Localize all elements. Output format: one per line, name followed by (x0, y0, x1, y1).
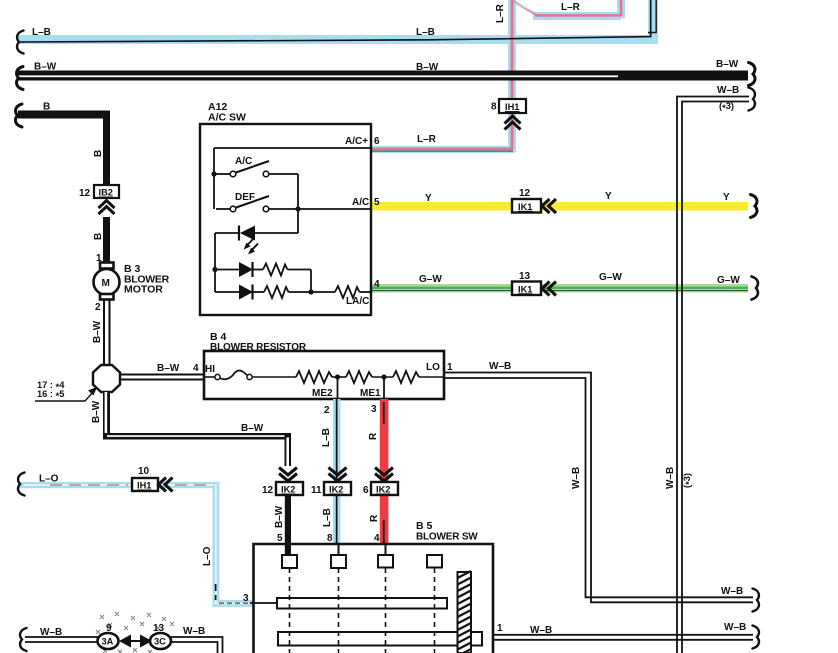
splice arrows between 3A 3C (119, 635, 152, 648)
B5 terminal square spare (427, 555, 442, 568)
svg-text:B–W: B–W (241, 423, 264, 434)
pin 2 blower motor (95, 302, 101, 313)
wire L-R corner to A12 pin6 (372, 131, 516, 153)
label W-B bottom right horizontal (721, 586, 743, 597)
label Y mid (605, 191, 612, 202)
svg-text:12: 12 (79, 188, 91, 199)
label B-W center (416, 62, 439, 73)
label B-W horizontal run (241, 423, 264, 434)
wire B-W octagon down and right to IK2 (thick with core) (103, 392, 291, 466)
label A/C pin name (352, 197, 369, 208)
label W-B near pin1 (530, 625, 552, 636)
blower resistor B4 box (204, 351, 444, 399)
connector 12 IK1 box (512, 199, 541, 213)
pin 5 of A12 (374, 197, 380, 208)
svg-text:16 : *5: 16 : *5 (37, 389, 64, 401)
label A12 A/C SW (208, 101, 246, 124)
label L-R mid (417, 134, 437, 145)
cut symbol B-W left (17, 67, 23, 90)
label R rotated upper (368, 432, 379, 440)
svg-text:B 5: B 5 (416, 520, 433, 532)
label B-W right (716, 59, 739, 70)
label W-B after 3C (183, 626, 205, 637)
switch DEF (216, 196, 269, 212)
svg-text:3C: 3C (154, 637, 166, 647)
svg-text:5: 5 (277, 533, 283, 544)
svg-text:L–B: L–B (416, 27, 435, 38)
svg-text:2: 2 (95, 302, 101, 313)
label W-B far right bottom (724, 622, 746, 633)
pin 1 of B5 (497, 623, 503, 634)
pin 5 of B5 (277, 533, 283, 544)
pin 3 label below B4 (371, 404, 377, 415)
wire B thick to motor (103, 217, 110, 262)
connector 10 IH1 box (132, 478, 158, 491)
wire W-B bottom left (25, 637, 98, 642)
svg-text:G–W: G–W (717, 275, 740, 286)
svg-text:HI: HI (205, 364, 215, 375)
label B rotated lower (93, 233, 104, 240)
wire R red vertical B4 to B5 (380, 399, 389, 544)
svg-text:R: R (368, 432, 379, 440)
label G-W left (419, 274, 442, 285)
svg-text:Y: Y (723, 192, 730, 203)
svg-text:12: 12 (262, 485, 274, 496)
svg-text:3: 3 (243, 593, 249, 604)
svg-text:3A: 3A (102, 637, 114, 647)
resistor R-led3 zigzag (264, 286, 335, 298)
wire L-R vertical from top (blue sheath + pink core) (508, 0, 516, 152)
svg-text:4: 4 (374, 533, 380, 544)
svg-text:A/C: A/C (352, 197, 369, 208)
node A/C+ internal row (214, 148, 371, 209)
svg-text:R: R (369, 514, 380, 522)
resistor ME1-LO (393, 371, 444, 383)
cut symbol W-B right mid (753, 589, 759, 612)
svg-text:2: 2 (324, 405, 330, 416)
svg-text:B–W: B–W (34, 62, 57, 73)
junction dot ME2 (335, 374, 340, 399)
svg-text:DEF: DEF (235, 192, 255, 203)
pin 6 of IK2 (363, 485, 369, 496)
svg-text:IK2: IK2 (376, 485, 390, 495)
cut symbol B-W right (749, 63, 755, 86)
B5 terminal square 4 (378, 545, 393, 568)
junction dot ME1 (381, 374, 386, 399)
svg-text:8: 8 (327, 533, 333, 544)
switch A/C (216, 161, 269, 177)
svg-text:L–B: L–B (321, 428, 332, 447)
wire L-O orange stripe dashes (50, 485, 250, 603)
junction dot LA/C row (308, 289, 313, 294)
svg-text:B–W: B–W (92, 320, 103, 343)
label Y right (723, 192, 730, 203)
label B-W octagon-B4 (157, 363, 180, 374)
wire L-B vertical B4 to B5 (333, 399, 341, 544)
connector 6 IK2 box (371, 482, 398, 495)
svg-text:IH1: IH1 (505, 102, 519, 112)
junction dot DEF/pin5 (295, 206, 300, 211)
svg-text:L–O: L–O (39, 474, 59, 485)
pin 6 of A12 (374, 136, 380, 147)
label L-B center (416, 27, 435, 38)
label ME2 ME1 (312, 388, 381, 399)
label B left (43, 102, 50, 113)
label R rotated lower (369, 514, 380, 522)
pin 12 of IK1 (519, 188, 531, 199)
annotation 17:*4 16:*5 with arrow (35, 380, 97, 401)
wire G-W green A12 pin4 to right (372, 284, 748, 293)
pin 10 of IH1 (138, 466, 150, 477)
svg-text:IH1: IH1 (137, 481, 151, 491)
wire W-B from B5 pin1 to right cut (493, 635, 753, 640)
pin 4 of B5 (374, 533, 380, 544)
wire Y yellow A12 pin5 to right (372, 202, 748, 211)
label L-R top horizontal (561, 2, 581, 13)
chevron left at IH1-10 (159, 478, 173, 492)
svg-text:B–W: B–W (416, 62, 439, 73)
label B-W rotated lower (274, 505, 285, 528)
svg-text:W–B: W–B (571, 467, 582, 489)
svg-text:11: 11 (311, 485, 322, 496)
svg-text:B–W: B–W (274, 505, 285, 528)
connector 13 IK1 box (512, 282, 541, 296)
svg-text:W–B: W–B (183, 626, 205, 637)
svg-text:5: 5 (374, 197, 380, 208)
cut symbol W-B right top (749, 88, 755, 111)
pin 1 blower motor (96, 253, 102, 264)
svg-text:B–W: B–W (157, 363, 180, 374)
pin 2 label below B4 (324, 405, 330, 416)
ground splice 3C (150, 633, 171, 649)
wire B-W octagon to B4 (double line) (120, 375, 204, 380)
dashed contact line 2 (338, 568, 340, 653)
svg-text:LA/C: LA/C (346, 296, 369, 307)
label (*3) rotated on right vertical (682, 473, 694, 488)
diode LED2 (215, 262, 263, 277)
label LO (426, 362, 440, 373)
label L-R vertical rotated (495, 3, 506, 23)
svg-text:Y: Y (425, 193, 432, 204)
label B-W left (34, 62, 57, 73)
svg-text:W–B: W–B (724, 622, 746, 633)
pin 1 of B4 (447, 362, 453, 373)
chevron down above IK2-12 (279, 468, 297, 482)
wire L-R top-right branch (diagonal+horizontal+up) (514, 0, 626, 20)
svg-text:B–W: B–W (91, 400, 102, 423)
resistor ME2-ME1 (346, 371, 393, 383)
svg-text:3: 3 (371, 404, 377, 415)
svg-text:L–B: L–B (322, 508, 333, 527)
blower switch B5 box (open bottom) (254, 544, 494, 653)
A/C switch A12 box (200, 124, 371, 315)
label B-W rotated motor-octagon (92, 320, 103, 343)
svg-text:(*3): (*3) (719, 101, 734, 113)
svg-text:ME2: ME2 (312, 388, 333, 399)
svg-text:L–R: L–R (561, 2, 581, 13)
label Y left (425, 193, 432, 204)
pin 9 of 3A (106, 623, 112, 634)
wire B-W below IK2 to B5 (285, 495, 291, 555)
label A/C switch (235, 156, 252, 167)
label B 3 BLOWER MOTOR (124, 263, 170, 296)
svg-text:L–B: L–B (32, 27, 51, 38)
svg-text:IK2: IK2 (329, 485, 343, 495)
wire L-O from left cut (18, 482, 253, 607)
svg-text:IK1: IK1 (518, 284, 532, 294)
svg-text:ME1: ME1 (360, 388, 381, 399)
splice octagon node (93, 365, 120, 392)
svg-text:L–R: L–R (495, 3, 506, 23)
svg-text:A/C SW: A/C SW (208, 112, 246, 124)
wire W-B (*3) top corner (677, 97, 749, 653)
junction dot LED bus (212, 267, 217, 272)
dashed contact line 4 (434, 568, 436, 653)
svg-text:W–B: W–B (721, 586, 743, 597)
pin 13 of 3C (153, 623, 165, 634)
label B-W rotated octagon-down (91, 400, 102, 423)
wire L-B horizontal (blue band) (18, 0, 658, 44)
diode LED3 (215, 285, 264, 300)
switch bar 1 (277, 598, 447, 609)
label DEF switch (235, 192, 255, 203)
ground splice 3A (98, 633, 119, 649)
svg-text:BLOWER RESISTOR: BLOWER RESISTOR (210, 342, 307, 353)
wire A/C contact to right vertical (269, 174, 298, 233)
chevron down above IK2-11 (329, 468, 347, 482)
node A/C output row to pin 5 (269, 208, 371, 210)
svg-text:8: 8 (491, 102, 497, 113)
svg-text:Y: Y (605, 191, 612, 202)
wire L-B black core polyline (18, 0, 656, 42)
cut symbol L-B left (17, 31, 23, 54)
pin 12 of IB2 (79, 188, 91, 199)
label LA/C pin name (346, 296, 369, 307)
dashed contact line 1 (289, 568, 291, 653)
label B 5 BLOWER SW (416, 520, 478, 543)
chevron left at IK1-12 (542, 199, 556, 213)
resistor R-led2 zigzag (263, 264, 311, 293)
LED1 indicator (points left) (215, 226, 298, 241)
resistor HI-ME2 (296, 371, 346, 383)
chevron up below IH1 (505, 116, 521, 130)
label HI (205, 364, 215, 375)
svg-text:13: 13 (153, 623, 165, 634)
wire W-B from LO to right and down (444, 373, 753, 603)
svg-text:BLOWER SW: BLOWER SW (416, 532, 478, 543)
chevron left at IK1-13 (542, 282, 556, 296)
B5 terminal square 5 (282, 555, 297, 568)
svg-text:B: B (93, 233, 104, 240)
label W-B near LO (489, 361, 511, 372)
wire pin3 into B5 (250, 602, 277, 604)
thermal fuse (205, 371, 296, 380)
blower motor B3 (94, 263, 120, 300)
B5 terminal square 8 (331, 545, 346, 568)
svg-text:A/C+: A/C+ (345, 136, 368, 147)
label W-B rotated left vertical (571, 467, 582, 489)
cut symbol W-B right bottom (753, 626, 759, 649)
svg-text:1: 1 (497, 623, 503, 634)
wire W-B from 3C turning down (171, 637, 223, 653)
cut symbol L-O left (18, 473, 24, 496)
svg-text:6: 6 (363, 485, 369, 496)
LED1 emission arrows (244, 239, 259, 255)
label A/C+ pin name (345, 136, 368, 147)
label G-W right (717, 275, 740, 286)
svg-text:4: 4 (374, 279, 380, 290)
cut symbol B left (16, 104, 22, 127)
svg-text:W–B: W–B (489, 361, 511, 372)
connector 12 IK2 box (276, 482, 303, 495)
svg-text:IK2: IK2 (281, 485, 295, 495)
pin 4 of A12 (374, 279, 380, 290)
svg-text:B–W: B–W (716, 59, 739, 70)
svg-text:IK1: IK1 (518, 202, 532, 212)
svg-text:L–O: L–O (202, 546, 213, 566)
label L-B rotated lower (322, 508, 333, 527)
label W-B rotated on right vertical (665, 467, 676, 489)
wire B-W thick horizontal top (18, 71, 748, 81)
cut symbol Y right (751, 195, 757, 218)
svg-text:W–B: W–B (40, 627, 62, 638)
wire B thick from left cut (18, 111, 110, 186)
chevron up below IB2 (99, 201, 115, 215)
svg-text:W–B: W–B (665, 467, 676, 489)
pin 8 of B5 (327, 533, 333, 544)
hatched actuator (458, 571, 472, 653)
connector 12 IB2 box (94, 185, 119, 198)
svg-text:IB2: IB2 (99, 188, 113, 198)
switch bar 2 (278, 632, 482, 646)
connector 11 IK2 box (324, 482, 351, 495)
pin 13 of IK1 (519, 271, 531, 282)
label L-O rotated (202, 546, 213, 566)
svg-text:B: B (93, 150, 104, 157)
svg-text:G–W: G–W (419, 274, 442, 285)
svg-text:1: 1 (447, 362, 453, 373)
svg-text:LO: LO (426, 362, 440, 373)
svg-text:G–W: G–W (599, 272, 622, 283)
svg-text:A/C: A/C (235, 156, 252, 167)
svg-text:M: M (102, 278, 110, 289)
svg-text:9: 9 (106, 623, 112, 634)
pin 11 of IK2 (311, 485, 322, 496)
svg-text:13: 13 (519, 271, 531, 282)
svg-text:B: B (43, 102, 50, 113)
svg-text:MOTOR: MOTOR (124, 284, 163, 296)
pin 4 of B4 (193, 363, 199, 374)
label B 4 BLOWER RESISTOR (210, 331, 307, 353)
connector 8 IH1 box (499, 99, 526, 113)
pin 3 of B5 (243, 593, 249, 604)
cut symbol G-W right (752, 277, 758, 300)
svg-text:12: 12 (519, 188, 531, 199)
label G-W mid (599, 272, 622, 283)
junction dot A/C bus (211, 171, 216, 176)
label W-B top right (717, 85, 739, 96)
resistor LA/C zigzag (335, 286, 371, 298)
svg-text:L–R: L–R (417, 134, 437, 145)
speckle pattern near grounds (96, 612, 174, 653)
label L-B left (32, 27, 51, 38)
pin 8 of IH1 (491, 102, 497, 113)
cut symbol W-B bottom left (20, 628, 26, 651)
chevron down above IK2-6 (375, 468, 393, 482)
svg-text:10: 10 (138, 466, 150, 477)
label W-B bottom left (40, 627, 62, 638)
label L-O left (39, 474, 59, 485)
svg-text:W–B: W–B (530, 625, 552, 636)
pin 12 of IK2 (262, 485, 274, 496)
dashed contact line 3 (385, 568, 387, 653)
svg-text:4: 4 (193, 363, 199, 374)
wire B-W motor to octagon (double line) (104, 300, 110, 366)
svg-text:(*3): (*3) (682, 473, 694, 488)
label (*3) top right (719, 101, 734, 113)
svg-text:W–B: W–B (717, 85, 739, 96)
LED bus left vertical (214, 233, 216, 292)
label B rotated upper (93, 150, 104, 157)
svg-text:6: 6 (374, 136, 380, 147)
label L-B rotated upper (321, 428, 332, 447)
